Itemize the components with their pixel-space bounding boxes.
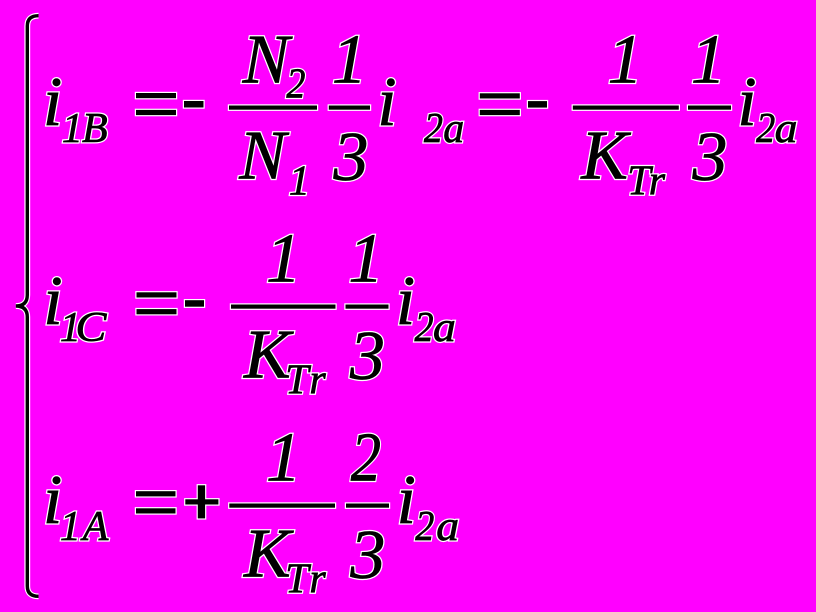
row2 numerator 1 xyxy=(266,220,301,297)
svg-text:1: 1 xyxy=(332,21,367,98)
row1 numerator 1 xyxy=(332,21,367,98)
row1 right numerator 1 xyxy=(691,21,726,98)
row1 numerator 1 over K xyxy=(608,21,643,98)
row1 end subscript 2a xyxy=(756,106,798,152)
row1 second equals sign xyxy=(480,93,520,115)
row3 end subscript 2a xyxy=(415,504,459,550)
svg-text:3: 3 xyxy=(349,318,385,395)
svg-text:1: 1 xyxy=(348,220,383,297)
row1 denominator N xyxy=(238,117,289,194)
svg-text:i: i xyxy=(43,64,62,141)
row3 denominator K xyxy=(243,515,294,592)
svg-text:3: 3 xyxy=(692,119,728,196)
svg-text:T: T xyxy=(285,557,311,603)
row2 denominator K xyxy=(243,316,294,393)
row2 subscript 1C xyxy=(60,305,108,351)
row2 fraction bar 1 over KTr xyxy=(231,305,336,309)
row3 fraction bar 2 over 3 xyxy=(346,504,389,508)
svg-text:1: 1 xyxy=(608,21,643,98)
row1 minus sign xyxy=(184,101,204,108)
svg-text:2: 2 xyxy=(415,305,434,351)
row3 numerator 2 xyxy=(351,419,381,496)
svg-text:B: B xyxy=(82,106,108,152)
row1 right denominator 3 xyxy=(692,119,728,196)
row1 middle subscript 2a xyxy=(424,106,464,152)
row1 second minus sign xyxy=(528,101,547,108)
row2 right numerator 1 xyxy=(348,220,383,297)
row1 numerator subscript 2 xyxy=(286,61,305,107)
svg-text:3: 3 xyxy=(349,517,385,594)
left system brace xyxy=(16,16,39,597)
svg-text:r: r xyxy=(309,358,326,404)
svg-text:a: a xyxy=(433,305,456,351)
row2 denominator 3 xyxy=(349,318,385,395)
svg-text:1: 1 xyxy=(60,504,81,550)
svg-text:2: 2 xyxy=(286,61,305,107)
row1 numerator N xyxy=(242,21,293,98)
row3 plus sign xyxy=(185,485,218,518)
svg-text:i: i xyxy=(737,64,756,141)
svg-text:1: 1 xyxy=(266,419,301,496)
row1 right fraction bar 1 over 3 xyxy=(688,106,731,110)
svg-text:i: i xyxy=(396,263,415,340)
row3 denominator subscript Tr xyxy=(285,557,326,603)
svg-text:2: 2 xyxy=(415,504,434,550)
svg-text:1: 1 xyxy=(289,158,310,204)
row1 end term i xyxy=(737,64,756,141)
svg-text:2: 2 xyxy=(756,106,775,152)
svg-text:3: 3 xyxy=(333,119,369,196)
svg-text:r: r xyxy=(309,557,326,603)
row1 middle term i xyxy=(377,64,396,141)
row1 fraction bar N2 over N1 xyxy=(229,106,317,110)
svg-text:1: 1 xyxy=(266,220,301,297)
row2 denominator subscript Tr xyxy=(285,358,326,404)
row3 numerator 1 xyxy=(266,419,301,496)
row1 denominator subscript Tr xyxy=(627,159,666,205)
svg-text:2: 2 xyxy=(424,106,443,152)
svg-text:a: a xyxy=(443,106,464,152)
svg-text:A: A xyxy=(80,504,109,550)
row3 term i xyxy=(43,462,62,539)
row3 fraction bar 1 over KTr xyxy=(229,504,335,508)
svg-text:i: i xyxy=(397,462,416,539)
svg-text:r: r xyxy=(649,159,666,205)
svg-text:2: 2 xyxy=(351,419,381,496)
svg-text:K: K xyxy=(580,117,631,194)
row1 subscript 1B xyxy=(62,106,108,152)
row2 term i xyxy=(43,263,62,340)
row3 subscript 1A xyxy=(60,504,109,550)
row2 minus sign xyxy=(185,300,204,307)
row1 term i xyxy=(43,64,62,141)
svg-text:N: N xyxy=(242,21,293,98)
row2 equals sign xyxy=(137,292,177,314)
row2 fraction bar 1 over 3 xyxy=(346,305,389,309)
svg-text:a: a xyxy=(775,106,798,152)
row3 end term i xyxy=(397,462,416,539)
svg-text:N: N xyxy=(238,117,289,194)
row1 fraction bar 1 over 3 xyxy=(329,106,370,110)
svg-text:C: C xyxy=(75,305,107,351)
svg-text:i: i xyxy=(377,64,396,141)
row2 end subscript 2a xyxy=(415,305,456,351)
row1 denominator subscript 1 xyxy=(289,158,310,204)
svg-text:1: 1 xyxy=(62,106,83,152)
row1 fraction bar 1 over KTr xyxy=(573,106,679,110)
svg-text:T: T xyxy=(285,358,311,404)
row3 equals sign xyxy=(136,491,176,513)
row1 denominator K xyxy=(580,117,631,194)
row1 equals sign xyxy=(136,93,176,115)
svg-text:a: a xyxy=(436,504,459,550)
row2 end term i xyxy=(396,263,415,340)
row3 denominator 3 xyxy=(349,517,385,594)
row1 denominator 3 xyxy=(333,119,369,196)
svg-text:1: 1 xyxy=(691,21,726,98)
